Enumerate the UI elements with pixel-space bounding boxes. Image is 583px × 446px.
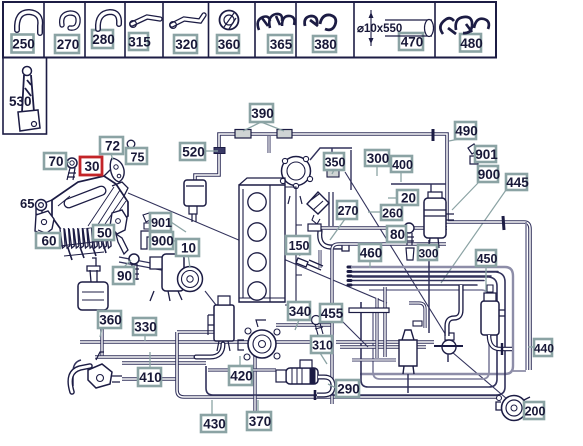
svg-text:445: 445	[506, 175, 529, 190]
svg-text:900: 900	[151, 234, 174, 249]
svg-text:70: 70	[48, 154, 63, 169]
svg-text:490: 490	[455, 124, 478, 139]
svg-text:65: 65	[20, 196, 34, 211]
svg-text:360: 360	[99, 313, 122, 328]
svg-text:530: 530	[9, 94, 32, 109]
svg-text:901: 901	[151, 216, 172, 230]
svg-text:450: 450	[477, 252, 498, 266]
svg-text:480: 480	[460, 36, 483, 51]
svg-text:460: 460	[360, 246, 383, 261]
svg-text:410: 410	[139, 370, 162, 385]
svg-text:420: 420	[230, 369, 253, 384]
svg-text:901: 901	[475, 147, 498, 162]
svg-text:200: 200	[525, 405, 546, 419]
svg-text:290: 290	[337, 382, 360, 397]
svg-text:75: 75	[131, 151, 145, 165]
svg-text:520: 520	[182, 145, 205, 160]
svg-text:60: 60	[41, 234, 56, 249]
svg-text:10: 10	[181, 241, 196, 256]
svg-text:300: 300	[418, 247, 438, 261]
svg-text:72: 72	[105, 139, 120, 154]
svg-text:280: 280	[92, 32, 115, 47]
svg-text:390: 390	[251, 106, 274, 121]
svg-text:430: 430	[203, 417, 226, 432]
svg-text:400: 400	[392, 158, 413, 172]
svg-text:350: 350	[325, 156, 346, 170]
svg-text:270: 270	[338, 204, 359, 218]
svg-text:300: 300	[367, 151, 390, 166]
svg-text:470: 470	[401, 35, 424, 50]
svg-text:30: 30	[84, 159, 99, 174]
svg-text:80: 80	[390, 227, 405, 242]
svg-text:260: 260	[382, 207, 403, 221]
svg-text:315: 315	[128, 35, 151, 50]
svg-text:310: 310	[312, 339, 333, 353]
svg-text:900: 900	[478, 167, 501, 182]
svg-text:50: 50	[97, 226, 112, 241]
svg-text:365: 365	[270, 37, 293, 52]
svg-text:20: 20	[401, 191, 416, 206]
svg-text:320: 320	[175, 37, 198, 52]
svg-text:380: 380	[314, 37, 337, 52]
svg-text:340: 340	[289, 304, 312, 319]
svg-text:150: 150	[289, 239, 310, 253]
svg-text:90: 90	[117, 269, 132, 284]
svg-text:330: 330	[134, 320, 157, 335]
svg-text:455: 455	[321, 306, 344, 321]
svg-text:440: 440	[534, 342, 554, 356]
svg-text:270: 270	[57, 37, 80, 52]
svg-text:250: 250	[12, 37, 35, 52]
svg-text:360: 360	[218, 37, 241, 52]
svg-text:⌀10x550: ⌀10x550	[357, 23, 402, 35]
svg-text:370: 370	[249, 414, 272, 429]
